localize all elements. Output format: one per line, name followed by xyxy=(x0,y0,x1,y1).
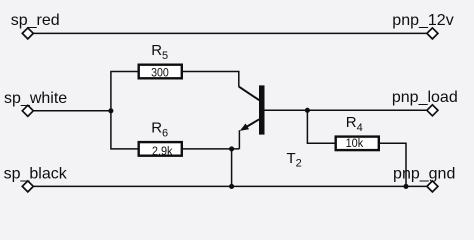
svg-text:pnp_load: pnp_load xyxy=(392,89,458,106)
resistor R4 body xyxy=(336,137,379,151)
wire sp_white to branch xyxy=(33,110,111,112)
resistor R5 body xyxy=(139,65,182,79)
wire emitter vertical foot xyxy=(238,130,240,149)
connector diamond sp_red xyxy=(22,28,33,39)
wire base to pnp_load xyxy=(265,109,427,111)
svg-text:pnp_gnd: pnp_gnd xyxy=(393,166,455,183)
svg-text:2.9k: 2.9k xyxy=(152,144,173,158)
wire top rail sp_red to pnp_12v xyxy=(33,32,427,34)
svg-text:sp_white: sp_white xyxy=(4,90,67,107)
svg-text:sp_red: sp_red xyxy=(11,12,60,29)
wire R5 right to collector bend xyxy=(183,72,239,87)
wire R4 left up to base node xyxy=(307,110,334,143)
transistor emitter diagonal xyxy=(242,119,259,129)
connector diamond sp_white xyxy=(22,105,33,116)
wire branch down to bottom rail xyxy=(231,149,233,187)
junction dot bottom rail right xyxy=(403,184,408,189)
transistor T2 xyxy=(239,85,265,134)
svg-text:10k: 10k xyxy=(346,136,364,150)
transistor base bar xyxy=(259,85,265,134)
resistor R6 body xyxy=(139,142,182,156)
svg-text:pnp_12v: pnp_12v xyxy=(392,12,453,29)
wire R6 right to emitter foot xyxy=(183,148,239,150)
junction dot bottom rail left xyxy=(229,184,234,189)
junction dot emitter/R6 node xyxy=(229,146,234,151)
connector diamond pnp_12v xyxy=(427,28,438,39)
svg-text:300: 300 xyxy=(151,65,169,79)
transistor collector diagonal xyxy=(239,87,259,101)
connector diamond pnp_gnd xyxy=(427,181,438,192)
connector diamond pnp_load xyxy=(427,105,438,116)
junction dot base node xyxy=(305,108,310,113)
connector diamond sp_black xyxy=(22,181,33,192)
transistor emitter arrowhead xyxy=(240,124,249,131)
wire bottom rail sp_black to pnp_gnd xyxy=(33,185,427,187)
wire R4 right down to bottom rail xyxy=(379,143,406,186)
wire left branch vertical with R5/R6 stubs xyxy=(111,72,138,149)
junction dot sp_white branch xyxy=(108,108,113,113)
svg-text:sp_black: sp_black xyxy=(4,166,68,183)
